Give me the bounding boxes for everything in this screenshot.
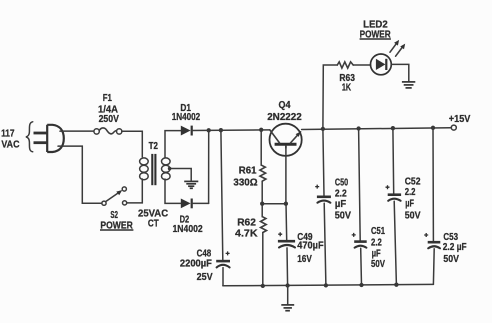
svg-text:1N4002: 1N4002 xyxy=(172,111,201,123)
label LED2 POWER xyxy=(360,18,391,40)
svg-text:2N2222: 2N2222 xyxy=(267,111,302,123)
svg-text:50V: 50V xyxy=(443,253,459,265)
label D1 1N4002 xyxy=(172,102,201,123)
AC plug P1 xyxy=(34,125,64,152)
resistor R63 xyxy=(337,62,353,68)
svg-text:50V: 50V xyxy=(371,258,385,270)
svg-text:F1: F1 xyxy=(103,92,112,104)
wire D2 to riser xyxy=(192,202,209,204)
label C52 xyxy=(405,176,421,222)
label 25VAC CT xyxy=(138,207,168,229)
label 117 VAC xyxy=(1,127,20,150)
label D2 1N4002 xyxy=(173,213,203,235)
transistor Q4 xyxy=(270,124,302,156)
top rail right xyxy=(302,128,452,130)
svg-text:16V: 16V xyxy=(297,253,312,265)
svg-text:50V: 50V xyxy=(405,210,421,222)
svg-text:R61: R61 xyxy=(239,165,257,177)
transformer T2 secondary coil xyxy=(162,158,171,180)
brace xyxy=(26,122,33,152)
label F1 1/4A 250V xyxy=(98,92,119,125)
wire secondary bottom to D2 xyxy=(165,179,181,203)
label C49 470uF 16V xyxy=(297,231,324,265)
svg-text:470µF: 470µF xyxy=(297,240,324,252)
node dot R61 base left xyxy=(260,202,264,206)
wire base down / capacitor C49 xyxy=(278,146,295,286)
center tap wire xyxy=(169,169,191,181)
wire secondary top to D1 xyxy=(165,131,181,157)
capacitor C51 xyxy=(352,129,367,286)
svg-text:µF: µF xyxy=(405,198,414,210)
svg-text:25V: 25V xyxy=(197,271,213,283)
LED2 xyxy=(371,54,392,75)
diode D1 xyxy=(181,126,192,136)
transformer T2 primary coil xyxy=(140,158,149,180)
svg-text:4.7K: 4.7K xyxy=(235,227,258,239)
resistor R62 xyxy=(261,204,267,286)
bottom rail xyxy=(223,284,434,285)
label C53 xyxy=(443,231,467,265)
switch S2 xyxy=(102,187,127,205)
+15V terminal xyxy=(451,125,456,130)
svg-text:µF: µF xyxy=(335,198,347,210)
capacitor C53 xyxy=(424,128,440,285)
label R62 4.7K xyxy=(235,217,258,240)
wire plug to fuse xyxy=(60,130,94,132)
top rail left xyxy=(192,129,270,132)
fuse F1 xyxy=(94,128,122,134)
svg-text:330Ω: 330Ω xyxy=(233,177,257,189)
ground (LED) xyxy=(402,82,415,88)
wire plug lower to switch xyxy=(58,146,102,203)
svg-text:250V: 250V xyxy=(99,113,119,125)
wire fuse to transformer xyxy=(122,131,143,157)
svg-text:1K: 1K xyxy=(342,82,351,94)
label C48 2200uF 25V xyxy=(180,248,213,284)
node dots bottom rail xyxy=(261,283,399,288)
svg-text:Q4: Q4 xyxy=(279,99,291,111)
wire riser D2 output xyxy=(208,130,210,203)
svg-text:2.2 µF: 2.2 µF xyxy=(443,241,467,253)
wire LED to ground xyxy=(391,64,409,81)
ground (center tap) xyxy=(184,181,198,188)
diode D2 xyxy=(181,199,192,209)
label C50 xyxy=(335,177,351,222)
svg-text:T2: T2 xyxy=(149,140,158,152)
svg-text:2.2: 2.2 xyxy=(405,186,416,198)
wire switch to transformer primary xyxy=(127,179,143,203)
capacitor C48 xyxy=(216,130,230,286)
svg-text:50V: 50V xyxy=(335,210,351,222)
wire R63 to LED xyxy=(353,64,370,66)
svg-text:1N4002: 1N4002 xyxy=(173,223,203,235)
svg-text:C51: C51 xyxy=(371,225,385,237)
label Q4 2N2222 xyxy=(267,99,302,123)
svg-text:+15V: +15V xyxy=(449,113,471,125)
svg-text:2200µF: 2200µF xyxy=(180,257,213,269)
svg-text:CT: CT xyxy=(148,217,159,229)
label R61 330ohm xyxy=(233,165,257,189)
resistor R61 xyxy=(260,130,266,204)
label S2 POWER xyxy=(100,209,133,231)
label C51 xyxy=(371,225,385,270)
label R63 1K xyxy=(339,72,355,93)
capacitor C50 xyxy=(315,129,331,286)
svg-text:VAC: VAC xyxy=(1,139,19,151)
node dot base xyxy=(284,202,288,206)
transformer T2 core xyxy=(152,154,155,185)
wire R61 bottom to base xyxy=(262,203,286,205)
node center tap dot xyxy=(168,167,172,171)
capacitor C52 xyxy=(386,128,402,285)
ground (bottom rail) xyxy=(281,286,294,311)
wire R63 riser xyxy=(323,65,337,129)
node dots top rail xyxy=(207,126,436,133)
LED2 arrows xyxy=(390,40,405,56)
